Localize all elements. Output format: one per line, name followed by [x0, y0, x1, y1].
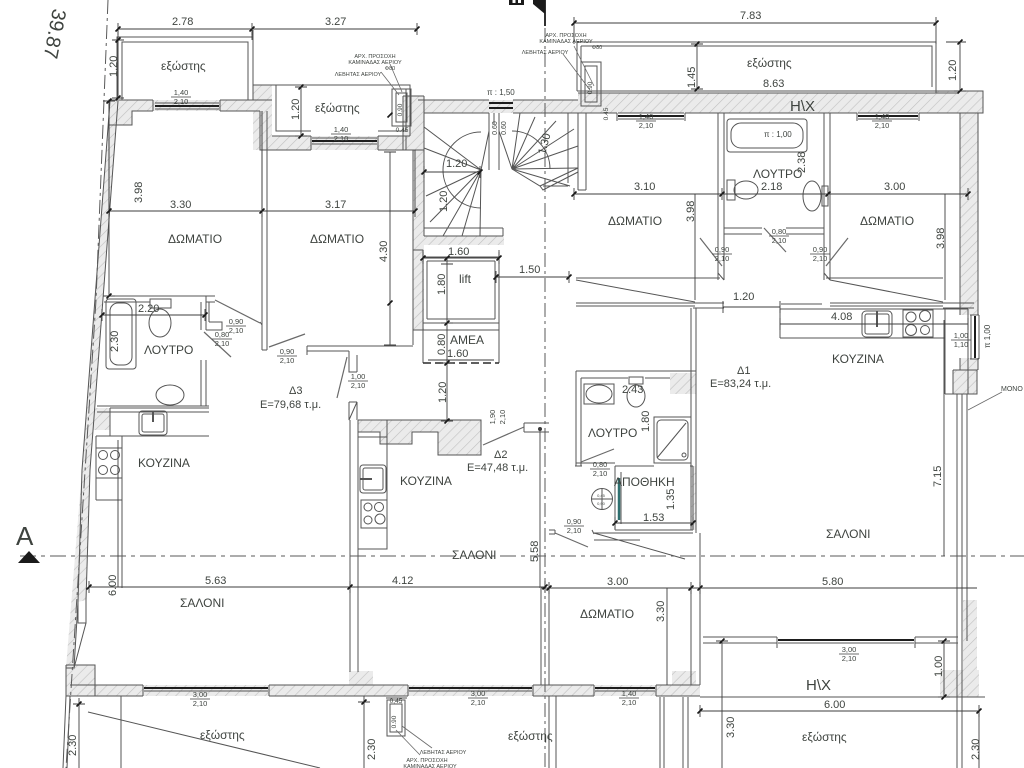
windows layer (dark sills) [144, 103, 975, 688]
svg-text:Φ80: Φ80 [592, 45, 603, 51]
window south 1.40 [595, 687, 655, 689]
sink kitchen d2 [360, 465, 386, 493]
svg-text:2,10: 2,10 [842, 654, 857, 663]
wall band hall Delta2 hatched [358, 420, 481, 455]
center axis vertical [544, 28, 546, 768]
amea box [423, 330, 499, 363]
svg-text:0.60: 0.60 [501, 121, 508, 135]
svg-text:3.00: 3.00 [607, 576, 628, 588]
wall band bottom (south wall) [70, 685, 350, 696]
stair right lower V [512, 168, 578, 190]
svg-text:1.60: 1.60 [447, 348, 468, 360]
door bathroom d3 [204, 332, 231, 357]
kitchen d1 counter [780, 309, 968, 394]
svg-text:5.58: 5.58 [529, 541, 541, 562]
dim 7.83 [574, 17, 936, 44]
svg-text:ΑΠΟΘΗΚΗ: ΑΠΟΘΗΚΗ [614, 475, 675, 489]
svg-text:3,00: 3,00 [842, 645, 857, 654]
dim 3.98 right b [944, 194, 946, 300]
stair central flight rails [489, 113, 499, 170]
toilet right apt [727, 180, 735, 200]
svg-text:ΔΩΜΑΤΙΟ: ΔΩΜΑΤΙΟ [310, 232, 364, 246]
svg-text:ΚΟΥΖΙΝΑ: ΚΟΥΖΙΝΑ [138, 456, 190, 470]
svg-text:ΛΕΒΗΤΑΣ ΑΕΡΙΟΥ: ΛΕΒΗΤΑΣ ΑΕΡΙΟΥ [335, 72, 382, 78]
HX top window wall [703, 637, 958, 643]
svg-text:0,80: 0,80 [772, 227, 787, 236]
property boundary left [66, 0, 108, 768]
door right bedroomA [700, 238, 722, 266]
tiny annotation texts [335, 33, 606, 768]
svg-text:1.20: 1.20 [437, 382, 449, 403]
dim 3.98 left [103, 101, 115, 296]
svg-text:A: A [16, 521, 34, 551]
stair inner right wall [543, 113, 568, 186]
svg-text:1.20: 1.20 [947, 60, 959, 81]
svg-text:E=47,48 τ.μ.: E=47,48 τ.μ. [467, 462, 528, 474]
dim 1.00 HX [938, 641, 950, 697]
washbasin d3 [156, 385, 184, 405]
balcony top edge line [577, 90, 936, 92]
bedroom divider wall left apt [262, 111, 267, 350]
dim 2.30 balcony left [73, 698, 85, 768]
wall corner block top-left [109, 100, 132, 125]
lift box [413, 250, 499, 330]
svg-text:ΛΕΒΗΤΑΣ ΑΕΡΙΟΥ: ΛΕΒΗΤΑΣ ΑΕΡΙΟΥ [522, 50, 569, 56]
sink kitchen d1 [862, 311, 892, 337]
svg-text:1,40: 1,40 [174, 88, 189, 97]
svg-text:1,10: 1,10 [954, 340, 969, 349]
kitchen d1 counter inner line [780, 323, 860, 325]
wall band right apartment top [578, 93, 958, 113]
balcony2 outer [272, 85, 410, 136]
window frame right wall [970, 315, 979, 359]
balcony bottom-left diagonal [88, 712, 320, 768]
door leaves [204, 46, 1002, 755]
dim 1.45 balcony [691, 44, 703, 89]
gas meter circle [592, 489, 613, 510]
svg-text:1.20: 1.20 [733, 291, 754, 303]
svg-text:0,90: 0,90 [715, 245, 730, 254]
svg-text:4.30: 4.30 [378, 241, 390, 262]
svg-text:3.10: 3.10 [634, 181, 655, 193]
svg-text:2,10: 2,10 [471, 698, 486, 707]
svg-text:0.45: 0.45 [396, 127, 409, 134]
staircase [424, 113, 578, 236]
svg-text:2.78: 2.78 [172, 16, 193, 28]
amea dashed boundary [423, 362, 499, 364]
dim 1.53 storage [615, 517, 693, 529]
stair left fan arc [443, 132, 481, 208]
wardrobe diagonal bottom-center [594, 533, 685, 559]
dim 2.20 bath d3 [102, 309, 205, 321]
svg-text:εξώστης: εξώστης [200, 728, 245, 742]
balcony bottom-left vertical [120, 696, 122, 768]
bathroom d3 box [104, 296, 206, 406]
door d1 bath outer [555, 533, 588, 547]
svg-text:0,90: 0,90 [280, 347, 295, 356]
svg-text:2,10: 2,10 [593, 469, 608, 478]
svg-text:2,10: 2,10 [622, 698, 637, 707]
wall band stair/right-apartment [578, 113, 586, 190]
lift inner [427, 261, 495, 319]
window south 3.00 b [409, 687, 532, 689]
svg-text:ΔΩΜΑΤΙΟ: ΔΩΜΑΤΙΟ [608, 214, 662, 228]
svg-text:0.60: 0.60 [492, 121, 499, 135]
wall left slanted band [82, 101, 118, 470]
svg-text:2,10: 2,10 [875, 121, 890, 130]
apartment labels [260, 365, 1023, 474]
svg-text:2.38: 2.38 [796, 152, 808, 173]
bedroom1 south wall to divider [206, 296, 262, 325]
svg-text:2,10: 2,10 [639, 121, 654, 130]
svg-text:2.20: 2.20 [138, 303, 159, 315]
balcony bottom-left slant edge [63, 696, 70, 768]
svg-text:0,90: 0,90 [813, 245, 828, 254]
section line A-A [20, 555, 1024, 557]
svg-text:3.98: 3.98 [133, 182, 145, 203]
dim 7.15 [943, 320, 945, 556]
window balcony2 1.40 [312, 140, 377, 142]
storage box [615, 466, 693, 530]
wall band lift left [413, 150, 424, 330]
wall block right bottom corner [940, 670, 979, 697]
stove d1 [903, 310, 933, 337]
window right-apt 1.40 b [858, 115, 918, 117]
svg-text:2,10: 2,10 [567, 526, 582, 535]
svg-text:ΛΟΥΤΡΟ: ΛΟΥΤΡΟ [588, 426, 637, 440]
svg-text:3,00: 3,00 [193, 690, 208, 699]
wall left of stair outline [403, 96, 424, 150]
center column walls (d1 bath/storage) [549, 371, 594, 534]
bottom-left corner block outline [66, 665, 95, 696]
svg-text:2,10: 2,10 [772, 236, 787, 245]
right wall lower (salon) double [957, 394, 967, 697]
dim 2.78/3.27 top [118, 23, 417, 35]
window south 3.00 a [144, 687, 268, 689]
svg-text:7.15: 7.15 [932, 466, 944, 487]
leader line gas top2 [563, 54, 590, 90]
storage bottom wall [594, 533, 693, 540]
balcony rails bottom-right [957, 697, 962, 768]
wall band left of stair [403, 96, 424, 150]
door bedroom2 left apt [269, 334, 305, 347]
dim 3.98 right a [694, 194, 696, 300]
dimension number labels [138, 10, 905, 711]
dim 3.00 bottom-center [549, 582, 700, 594]
wall between balconies outline [253, 30, 272, 150]
svg-text:H\X: H\X [790, 98, 815, 115]
stove d2 [361, 500, 387, 528]
wall d2/d1 divider [540, 429, 549, 685]
dimension tick marks (oblique) [77, 21, 982, 714]
svg-text:0,90: 0,90 [567, 517, 582, 526]
svg-text:1.00: 1.00 [933, 656, 945, 677]
svg-text:lift: lift [459, 272, 472, 286]
door entry d2 [483, 427, 524, 445]
svg-text:2.30: 2.30 [366, 739, 378, 760]
svg-text:Φ80: Φ80 [385, 66, 396, 72]
stair landing bottom line [424, 227, 503, 229]
svg-text:π 1,00: π 1,00 [983, 324, 992, 348]
wall corner top-right [936, 91, 983, 113]
window right-apt 1.40 a [618, 115, 684, 117]
basin right apt [803, 181, 821, 211]
dim 6.00 left [117, 440, 119, 587]
svg-text:2,10: 2,10 [174, 97, 189, 106]
toilet d3 [150, 299, 171, 308]
wall under balcony2 outline [272, 136, 410, 150]
svg-text:0.90: 0.90 [397, 103, 404, 116]
d1 bath bottom wall [576, 462, 615, 464]
dim 2.30 balcony mid [358, 696, 370, 768]
svg-text:1.80: 1.80 [640, 411, 652, 432]
svg-text:ΛΕΒΗΤΑΣ ΑΕΡΙΟΥ: ΛΕΒΗΤΑΣ ΑΕΡΙΟΥ [420, 750, 467, 756]
svg-text:3.17: 3.17 [325, 199, 346, 211]
svg-text:4.12: 4.12 [392, 575, 413, 587]
right wall outer/inner lines [960, 113, 978, 370]
dim 1.60 lift [423, 252, 499, 264]
window stair top [489, 103, 513, 108]
svg-text:1,40: 1,40 [334, 125, 349, 134]
svg-text:2.30: 2.30 [109, 331, 121, 352]
svg-text:2,10: 2,10 [193, 699, 208, 708]
dim 1.20 below amea [441, 363, 453, 421]
svg-text:3.98: 3.98 [935, 228, 947, 249]
svg-text:1.80: 1.80 [436, 274, 448, 295]
balcony top-left outer [117, 37, 253, 100]
svg-text:Δ1: Δ1 [737, 365, 750, 377]
window frame lines top-left [153, 100, 220, 111]
svg-text:2,10: 2,10 [351, 381, 366, 390]
leader line gas top1 [381, 72, 399, 95]
HX bottom edge [700, 696, 985, 698]
dim 3.10/2.18/3.00 right [574, 188, 968, 200]
svg-text:2,10: 2,10 [813, 254, 828, 263]
svg-text:1.53: 1.53 [643, 512, 664, 524]
salon divider line d3 [121, 436, 123, 588]
leader line MON [968, 392, 1002, 410]
shower d1 [654, 417, 691, 463]
leader line gas bottom [396, 730, 420, 755]
svg-text:5.63: 5.63 [205, 575, 226, 587]
svg-text:3.98: 3.98 [685, 201, 697, 222]
svg-text:εξώστης: εξώστης [315, 101, 360, 115]
gray block storage top right [670, 373, 696, 394]
svg-text:1,40: 1,40 [622, 689, 637, 698]
dim 1.20 balcony2 vert [295, 87, 307, 136]
bathroom d3 bottom wall [97, 406, 209, 412]
sink kitchen d3 [139, 411, 167, 435]
window HX 3.00 [778, 639, 914, 641]
gas boiler box bottom [387, 700, 405, 736]
stair right fan arc [512, 131, 550, 169]
wall block bottom center-left junction [349, 671, 373, 696]
svg-text:1.20: 1.20 [108, 56, 120, 77]
dim 3.30 balcony right [716, 641, 728, 768]
wall block bottom center-right junction [672, 671, 696, 696]
kitchen d3 counters [96, 408, 209, 500]
svg-text:εξώστης: εξώστης [802, 730, 847, 744]
svg-text:2,10: 2,10 [334, 134, 349, 143]
stair right fan steps [499, 113, 578, 186]
gas boiler box top2 [581, 62, 601, 106]
hall d2 wall outline [358, 420, 481, 455]
stair left fan steps [424, 127, 489, 236]
dim 4.30 [384, 152, 396, 345]
wall band top left-apartment [117, 100, 272, 111]
right apartment top wall outline [578, 93, 958, 113]
wall band stair bottom [424, 236, 504, 245]
washbasin d1 [584, 384, 614, 404]
chimney block kitchen d3 [88, 408, 110, 430]
svg-text:2,10: 2,10 [229, 326, 244, 335]
svg-text:2.43: 2.43 [622, 384, 643, 396]
svg-text:6.00: 6.00 [824, 699, 845, 711]
svg-text:2,10: 2,10 [715, 254, 730, 263]
svg-text:1.60: 1.60 [448, 246, 469, 258]
svg-text:1,00: 1,00 [351, 372, 366, 381]
svg-text:2,10: 2,10 [498, 410, 507, 425]
svg-text:1.30: 1.30 [536, 132, 553, 156]
svg-text:ΛΟΥΤΡΟ: ΛΟΥΤΡΟ [144, 343, 193, 357]
wall fills layer [66, 85, 983, 697]
balcony top-left inner [122, 42, 248, 100]
right bath bottom wall [724, 228, 824, 234]
dim 1.20 left top [112, 40, 124, 98]
svg-text:E=83,24 τ.μ.: E=83,24 τ.μ. [710, 378, 771, 390]
door bedroom1 left apt [215, 300, 260, 323]
wall block between balconies [253, 85, 272, 150]
svg-text:1.20: 1.20 [446, 158, 467, 170]
svg-text:3.00: 3.00 [884, 181, 905, 193]
dim 1.50 [496, 271, 569, 283]
bedroom2 right wall [406, 136, 424, 345]
fraction door/window labels [171, 81, 971, 728]
svg-text:0,90: 0,90 [229, 317, 244, 326]
wall band stair top [418, 100, 578, 113]
svg-text:1,00: 1,00 [954, 331, 969, 340]
gas boiler box top1 [392, 89, 411, 126]
wardrobe diagonal right bedroom B [830, 280, 943, 302]
svg-text:0,80: 0,80 [593, 460, 608, 469]
fixtures layer [96, 119, 933, 528]
stair top wall outline [418, 100, 578, 113]
top right balcony inner [581, 46, 932, 87]
door d1 bath inner [581, 449, 614, 462]
window frames south [143, 685, 269, 696]
svg-text:ΣΑΛΟΝΙ: ΣΑΛΟΝΙ [826, 527, 871, 541]
bathtub d3 (vertical) [106, 299, 136, 369]
svg-text:H\X: H\X [806, 677, 831, 694]
left slant wall lines [82, 101, 118, 470]
svg-text:3.30: 3.30 [655, 601, 667, 622]
dim 4.08 kitchen d1 [780, 318, 968, 330]
section markers [16, 0, 545, 563]
svg-text:6.00: 6.00 [107, 575, 119, 596]
dim 3.30/3.17 [109, 205, 415, 217]
svg-text:ΔΩΜΑΤΙΟ: ΔΩΜΑΤΙΟ [168, 232, 222, 246]
svg-text:εξώστης: εξώστης [508, 729, 553, 743]
dim 3.30 bottom-center room [666, 588, 668, 685]
svg-text:1,40: 1,40 [639, 112, 654, 121]
svg-text:0,80: 0,80 [215, 330, 230, 339]
svg-text:3,00: 3,00 [471, 689, 486, 698]
svg-text:1.35: 1.35 [665, 489, 677, 510]
dim 1.80 lift [441, 258, 453, 323]
storage sliding door (teal) [618, 478, 621, 520]
dim 1.20 right top [946, 42, 966, 91]
svg-text:0,45: 0,45 [597, 493, 606, 498]
svg-text:AMEA: AMEA [450, 333, 484, 347]
svg-text:2.30: 2.30 [67, 735, 79, 756]
door hall d3 [337, 357, 347, 398]
dim 0.80 amea [441, 323, 453, 363]
svg-text:0,90: 0,90 [597, 501, 606, 506]
stove d3 [96, 448, 122, 478]
svg-text:0,45: 0,45 [390, 698, 403, 705]
grey scale annotations [487, 88, 992, 348]
wall band under balcony2 [272, 136, 410, 150]
bottom wall outline (south) [70, 685, 350, 696]
room labels [138, 56, 914, 744]
wall right exterior band [960, 113, 978, 315]
wall block right mid [953, 370, 977, 394]
svg-text:π : 1,50: π : 1,50 [487, 88, 515, 97]
kitchen d2 counter [358, 420, 387, 549]
top right balcony outer [577, 42, 936, 91]
svg-text:0.45: 0.45 [603, 107, 610, 120]
svg-text:4.08: 4.08 [831, 311, 852, 323]
svg-text:3.30: 3.30 [170, 199, 191, 211]
svg-text:Δ2: Δ2 [494, 449, 507, 461]
svg-text:MONO: MONO [1001, 386, 1023, 393]
right bedrooms south wall [576, 273, 974, 309]
svg-text:2.18: 2.18 [761, 181, 782, 193]
wall band storage right [691, 466, 696, 530]
svg-text:ΣΑΛΟΝΙ: ΣΑΛΟΝΙ [452, 548, 497, 562]
toilet d1 [629, 377, 643, 384]
svg-text:1.50: 1.50 [519, 264, 540, 276]
svg-text:εξώστης: εξώστης [747, 56, 792, 70]
door right bedroomB [826, 238, 848, 266]
svg-text:0.80: 0.80 [436, 334, 448, 355]
bottom-center bedroom walls [541, 588, 700, 685]
wall corner block bottom-left [66, 665, 95, 696]
marker E top [509, 0, 524, 5]
svg-text:2,10: 2,10 [215, 339, 230, 348]
svg-text:0.90: 0.90 [587, 81, 594, 94]
dim 5.80 [691, 587, 977, 589]
svg-text:2,10: 2,10 [280, 356, 295, 365]
window right wall 1.00 [974, 316, 976, 358]
wall top-left outline [109, 100, 153, 125]
svg-text:3.27: 3.27 [325, 16, 346, 28]
dim 6.00 bottom-right [700, 705, 979, 717]
window top-left 1.40 [155, 105, 219, 107]
rotated fraction label hall d2 [488, 410, 507, 425]
svg-text:ΛΟΥΤΡΟ: ΛΟΥΤΡΟ [753, 167, 802, 181]
svg-text:ΚΑΜΙΝΑΔΑΣ ΑΕΡΙΟΥ: ΚΑΜΙΝΑΔΑΣ ΑΕΡΙΟΥ [539, 39, 593, 45]
window frame balcony2 [311, 136, 378, 150]
door right bath [764, 228, 786, 252]
bedroom2 bottom wall [307, 346, 413, 420]
stair outer box [424, 113, 578, 236]
svg-text:39.87: 39.87 [39, 7, 70, 60]
balcony rails bottom-middle wall [549, 696, 688, 768]
svg-text:5.80: 5.80 [822, 576, 843, 588]
svg-text:ΚΑΜΙΝΑΔΑΣ ΑΕΡΙΟΥ: ΚΑΜΙΝΑΔΑΣ ΑΕΡΙΟΥ [403, 764, 457, 768]
svg-text:0.90: 0.90 [391, 715, 398, 728]
